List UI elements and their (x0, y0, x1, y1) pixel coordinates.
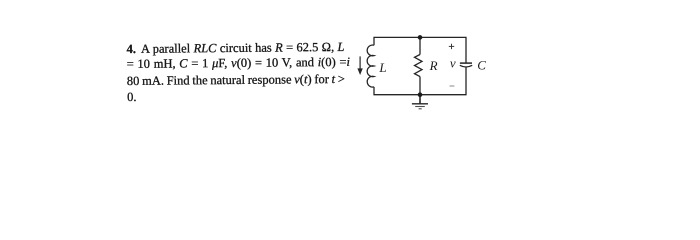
capacitor C top plate (460, 62, 472, 64)
capacitor minus sign (450, 85, 455, 87)
junction dot top (418, 35, 423, 40)
ground bar 2 (415, 106, 425, 108)
current arrow i shaft (359, 56, 361, 69)
ground bar 1 (412, 103, 428, 105)
svg-text:v: v (450, 56, 456, 71)
capacitor C bottom curved plate (460, 65, 472, 67)
svg-text:R: R (429, 58, 438, 73)
svg-text:L: L (378, 60, 386, 75)
ground bar 3 (419, 108, 422, 110)
svg-text:C: C (477, 58, 486, 73)
wire resistor branch bottom (419, 77, 421, 95)
wire resistor branch top (419, 37, 421, 54)
problem statement text (0, 0, 700, 157)
junction dot bottom (418, 92, 423, 97)
wire top rail (374, 37, 466, 63)
inductor L coil (367, 45, 374, 87)
capacitor plus sign (449, 44, 454, 49)
ground stub (419, 95, 421, 104)
wire bottom rail (374, 67, 466, 95)
current arrow i head (357, 68, 362, 75)
resistor R zigzag (415, 55, 423, 77)
